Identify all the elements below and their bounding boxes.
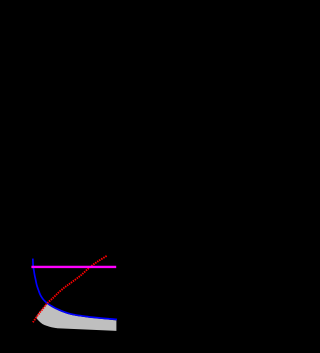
blue average-cost curve bbox=[33, 259, 117, 320]
magenta price line bbox=[31, 266, 116, 268]
gray shaded fixed-cost area bbox=[36, 304, 116, 331]
red dotted marginal-cost line bbox=[33, 256, 107, 322]
